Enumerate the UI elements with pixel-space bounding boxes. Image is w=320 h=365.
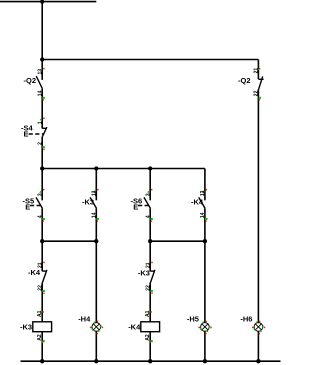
svg-text:21: 21 xyxy=(145,262,151,268)
wire bus row B xyxy=(42,59,258,61)
contact S5 NO xyxy=(30,189,45,222)
svg-text:21: 21 xyxy=(254,68,260,74)
wire col3 row C to S6 xyxy=(149,169,151,201)
contact S6 NO xyxy=(138,189,153,222)
node junction row D / col2 xyxy=(94,239,98,243)
contact K4 interlock NC xyxy=(37,262,47,294)
node junction bottom bus / col1 xyxy=(40,359,44,363)
wire col3 K3 contact to K4 coil xyxy=(149,283,151,322)
svg-text:1: 1 xyxy=(37,121,43,124)
svg-text:E: E xyxy=(24,129,29,138)
svg-text:-K3: -K3 xyxy=(82,198,94,207)
svg-text:13: 13 xyxy=(37,69,43,75)
node junction row C / col3 xyxy=(148,166,152,170)
node junction row D / col1 xyxy=(40,239,44,243)
node junction bottom bus / col4 xyxy=(203,359,207,363)
svg-text:-K4: -K4 xyxy=(28,268,41,277)
svg-text:-H6: -H6 xyxy=(240,315,252,324)
node junction bottom bus / col5 xyxy=(256,359,260,363)
svg-text:3: 3 xyxy=(145,193,151,196)
wire col3 K4 coil to bottom bus xyxy=(149,332,151,361)
svg-text:E: E xyxy=(25,203,30,212)
wire col5 Q2 to lamp H6 xyxy=(257,89,259,322)
svg-text:-K4: -K4 xyxy=(191,198,204,207)
wire col4 row C to K4 contact xyxy=(204,169,206,201)
svg-text:A1: A1 xyxy=(37,310,43,317)
svg-text:13: 13 xyxy=(92,190,98,196)
svg-text:-Q2: -Q2 xyxy=(238,76,251,85)
svg-text:13: 13 xyxy=(200,190,206,196)
contact Q2 NO auxiliary (left) xyxy=(36,68,45,101)
wire col2 lamp H4 to bottom bus xyxy=(95,331,97,361)
svg-text:-K4: -K4 xyxy=(128,323,141,332)
wire col2 row C to K3 contact xyxy=(95,169,97,201)
wire col4 lamp H5 to bottom bus xyxy=(204,331,206,361)
coil K4 xyxy=(141,310,160,342)
contact Q2 NC auxiliary (right) xyxy=(254,68,264,101)
wire col1 Q2 to S4 xyxy=(41,89,43,129)
node junction row C / col1 xyxy=(40,166,44,170)
svg-text:-H5: -H5 xyxy=(187,315,199,324)
contact K3 NO xyxy=(90,189,99,222)
lamp H4 xyxy=(90,321,103,335)
svg-text:A2: A2 xyxy=(37,334,43,341)
node junction top bus / col1 xyxy=(40,0,44,4)
wire col2 K3 contact to lamp H4 xyxy=(95,208,97,322)
lamp H5 xyxy=(199,321,212,335)
contact K3 interlock NC xyxy=(145,262,155,294)
svg-text:-H4: -H4 xyxy=(78,315,91,324)
wire col4 K4 contact to lamp H5 xyxy=(204,208,206,322)
wire col1 S4 to S5 xyxy=(41,136,43,200)
svg-text:-Q2: -Q2 xyxy=(24,76,37,85)
svg-text:22: 22 xyxy=(37,285,43,291)
node junction row D / col4 xyxy=(203,239,207,243)
svg-text:3: 3 xyxy=(37,193,43,196)
svg-text:22: 22 xyxy=(145,285,151,291)
wire col3 S6 to K3 contact xyxy=(149,208,151,271)
wire col1 S5 to K4 contact xyxy=(41,208,43,271)
svg-text:14: 14 xyxy=(200,212,206,218)
wire bus row D left segment xyxy=(42,240,96,242)
svg-text:4: 4 xyxy=(37,215,43,218)
wire col5 row B to Q2 xyxy=(257,60,259,80)
node junction row C / col2 xyxy=(94,166,98,170)
contact K4 NO xyxy=(199,189,208,222)
node junction bottom bus / col3 xyxy=(148,359,152,363)
svg-text:A1: A1 xyxy=(145,310,151,317)
wire bus row C xyxy=(42,168,205,170)
wire col1 top bus to Q2 xyxy=(41,2,43,80)
wire bottom return bus xyxy=(21,360,281,362)
contact S4 NC xyxy=(29,118,47,151)
lamp H6 xyxy=(252,321,265,335)
wire bus row D right segment xyxy=(150,240,205,242)
svg-text:-K3: -K3 xyxy=(138,269,150,278)
node junction row D / col3 xyxy=(148,239,152,243)
svg-text:14: 14 xyxy=(92,212,98,218)
node junction bottom bus / col2 xyxy=(94,359,98,363)
coil K3 xyxy=(33,310,52,342)
svg-text:-K3: -K3 xyxy=(20,322,32,331)
wire col1 K4 contact to K3 coil xyxy=(41,283,43,322)
svg-text:14: 14 xyxy=(37,90,43,96)
wire top supply bus xyxy=(0,1,96,3)
svg-text:E: E xyxy=(133,203,138,212)
svg-text:A2: A2 xyxy=(145,334,151,341)
node junction row B / col1 xyxy=(40,57,44,61)
svg-text:4: 4 xyxy=(145,215,151,218)
svg-text:2: 2 xyxy=(37,142,43,145)
wire col1 K3 coil to bottom bus xyxy=(41,332,43,361)
wire col5 lamp H6 to bottom bus xyxy=(257,331,259,361)
svg-text:22: 22 xyxy=(254,90,260,96)
